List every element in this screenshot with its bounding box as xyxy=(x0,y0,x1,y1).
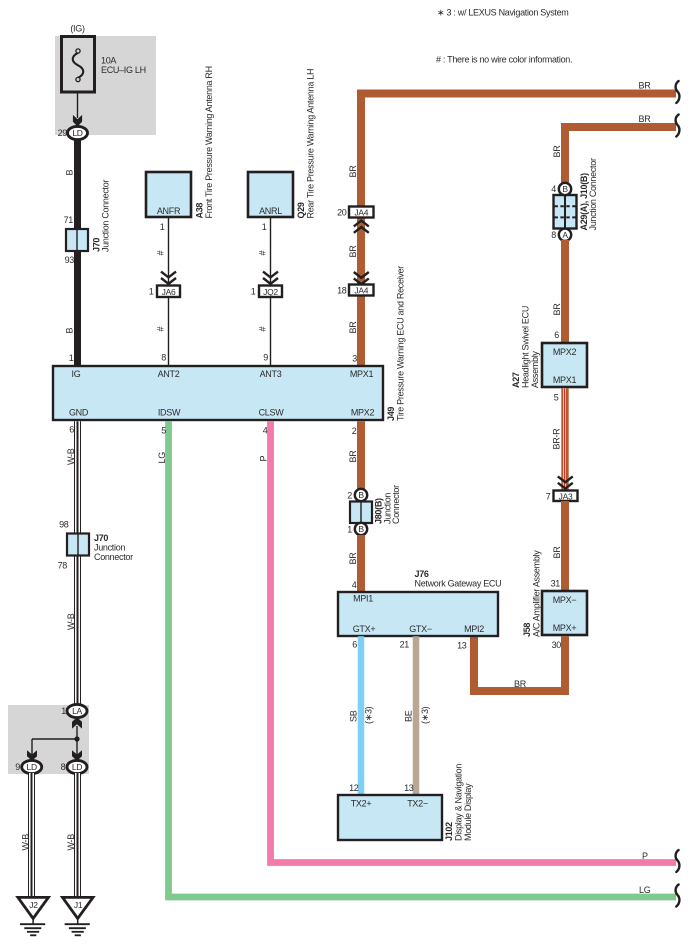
svg-text:B: B xyxy=(65,170,75,176)
wire W-B GND to ground block xyxy=(75,421,81,706)
svg-text:ANT2: ANT2 xyxy=(158,369,180,379)
svg-text:BR: BR xyxy=(514,679,527,689)
J58 A/C Amplifier Assembly xyxy=(542,591,587,635)
svg-text:18: 18 xyxy=(337,286,347,296)
svg-text:TX2−: TX2− xyxy=(407,799,428,809)
svg-text:Assembly: Assembly xyxy=(530,351,540,388)
svg-text:GTX+: GTX+ xyxy=(353,624,376,634)
svg-text:LG: LG xyxy=(639,885,651,895)
svg-text:P: P xyxy=(259,456,269,462)
svg-text:JA4: JA4 xyxy=(354,208,368,218)
connector JQ2 pin 1 xyxy=(259,286,282,298)
wire JQ2 to ANT3 xyxy=(270,297,272,366)
svg-text:MPX2: MPX2 xyxy=(351,408,375,418)
svg-text:93: 93 xyxy=(65,255,75,265)
J102 Display & Navigation Module Display xyxy=(338,795,442,840)
svg-text:ANFR: ANFR xyxy=(157,206,181,216)
svg-text:#: # xyxy=(156,327,166,332)
svg-text:#: # xyxy=(156,251,166,256)
arrow up to LA xyxy=(72,717,82,729)
connector pin 1 LA xyxy=(67,704,87,717)
svg-text:6: 6 xyxy=(69,425,74,435)
svg-text:29: 29 xyxy=(58,128,68,138)
svg-text:MPX1: MPX1 xyxy=(553,375,577,385)
connector JA3 pin 7 xyxy=(554,491,578,502)
svg-text:B: B xyxy=(358,524,364,534)
svg-text:5: 5 xyxy=(554,393,559,403)
wire BR J49 MPX2 down to J80 xyxy=(357,421,365,490)
svg-text:JA4: JA4 xyxy=(354,286,368,296)
svg-text:1: 1 xyxy=(251,287,256,297)
svg-text:5: 5 xyxy=(161,426,166,436)
svg-text:W-B: W-B xyxy=(21,834,31,851)
shaded power region (fuse block) xyxy=(55,36,156,135)
svg-text:Junction: Junction xyxy=(94,543,125,553)
svg-text:#: # xyxy=(258,251,268,256)
wire fuse to connector xyxy=(77,92,79,118)
svg-text:#: # xyxy=(258,327,268,332)
connector JA4 pin 18 xyxy=(349,285,374,296)
svg-text:JA3: JA3 xyxy=(559,491,573,501)
svg-text:LD: LD xyxy=(72,128,82,138)
pin 8 circle A xyxy=(559,229,571,241)
svg-text:IG: IG xyxy=(72,369,81,379)
junction connector J70 (upper) xyxy=(66,229,88,251)
svg-text:LA: LA xyxy=(72,706,82,716)
svg-text:MPX−: MPX− xyxy=(553,595,577,605)
svg-text:Headlight Swivel ECU: Headlight Swivel ECU xyxy=(521,306,531,388)
svg-text:W-B: W-B xyxy=(66,613,76,630)
svg-text:9: 9 xyxy=(263,353,268,363)
wire BR J58 MPX+ to J76 MPI2 xyxy=(474,636,565,691)
chevron arrow into JA3 xyxy=(558,476,573,488)
svg-text:B: B xyxy=(358,490,364,500)
svg-text:1: 1 xyxy=(262,222,267,232)
chevron arrow up out of JA4 xyxy=(354,221,369,233)
svg-text:BR: BR xyxy=(639,81,652,91)
svg-text:13: 13 xyxy=(457,641,467,651)
ground J2 xyxy=(18,897,49,935)
svg-text:BR: BR xyxy=(552,145,562,158)
wire LG IDSW to right edge xyxy=(169,421,677,897)
svg-text:Q29: Q29 xyxy=(296,202,306,218)
svg-text:ANRL: ANRL xyxy=(259,206,282,216)
svg-text:ECU–IG LH: ECU–IG LH xyxy=(101,65,146,75)
svg-text:MPI2: MPI2 xyxy=(464,624,484,634)
wire break squiggle (top BR) xyxy=(676,81,680,103)
svg-text:Front Tire Pressure Warning An: Front Tire Pressure Warning Antenna RH xyxy=(204,66,214,218)
connector pin 9 LD xyxy=(22,760,42,773)
svg-text:A: A xyxy=(562,230,568,240)
wire break squiggle (second BR) xyxy=(676,115,680,137)
svg-text:8: 8 xyxy=(551,230,556,240)
svg-text:JA6: JA6 xyxy=(162,287,176,297)
svg-text:TX2+: TX2+ xyxy=(351,799,372,809)
wire BR-R A27 to JA3 xyxy=(561,388,569,490)
svg-text:J76: J76 xyxy=(415,569,429,579)
antenna A38 ANFR (Front Tire Pressure Warning Antenna RH) xyxy=(146,172,191,217)
svg-text:Connector: Connector xyxy=(94,552,133,562)
chevron arrow into JA4 xyxy=(354,272,369,284)
svg-text:9: 9 xyxy=(15,762,20,772)
wire branch horizontal xyxy=(32,738,77,740)
junction connector A29(A), J10(B) xyxy=(554,195,577,229)
svg-text:LD: LD xyxy=(72,762,82,772)
junction connector J70 (lower) xyxy=(67,534,89,556)
svg-text:CLSW: CLSW xyxy=(259,408,285,418)
svg-text:∗ 3 : w/ LEXUS Navigation Syst: ∗ 3 : w/ LEXUS Navigation System xyxy=(437,8,569,18)
ECU J49 Tire Pressure Warning ECU and Receiver xyxy=(53,366,383,420)
svg-text:6: 6 xyxy=(352,640,357,650)
svg-text:BR: BR xyxy=(348,245,358,258)
chevron arrow into JQ2 xyxy=(263,272,278,284)
svg-text:4: 4 xyxy=(551,184,556,194)
svg-text:GND: GND xyxy=(69,408,89,418)
wire BR JA3 to J58 xyxy=(561,501,569,591)
junction connector J80(B) xyxy=(350,489,372,535)
wire SB J76 GTX+ to J102 TX2+ xyxy=(358,636,365,795)
svg-text:J58: J58 xyxy=(522,623,532,637)
svg-text:P: P xyxy=(642,851,648,861)
junction node xyxy=(74,736,79,741)
svg-text:BR: BR xyxy=(348,321,358,334)
svg-text:6: 6 xyxy=(554,330,559,340)
connector pin 8 LD xyxy=(67,760,87,773)
svg-text:J102: J102 xyxy=(444,822,454,841)
svg-text:8: 8 xyxy=(61,762,66,772)
svg-text:1: 1 xyxy=(149,287,154,297)
arrow into pin 9 LD xyxy=(27,750,37,761)
svg-text:W-B: W-B xyxy=(66,834,76,851)
svg-text:Junction Connector: Junction Connector xyxy=(101,180,111,252)
svg-text:BR: BR xyxy=(348,450,358,463)
svg-text:BR: BR xyxy=(348,165,358,178)
svg-text:J2: J2 xyxy=(29,900,38,910)
svg-text:IDSW: IDSW xyxy=(158,408,181,418)
svg-text:JQ2: JQ2 xyxy=(263,287,278,297)
svg-text:13: 13 xyxy=(404,783,414,793)
wire B (thick black) pin29 to J49 IG xyxy=(74,139,81,366)
svg-text:1: 1 xyxy=(347,525,352,535)
wire BR J80 to J76 MPI1 xyxy=(357,535,365,592)
svg-text:Tire Pressure Warning ECU and: Tire Pressure Warning ECU and Receiver xyxy=(396,266,406,421)
svg-text:BR: BR xyxy=(552,546,562,559)
svg-text:8: 8 xyxy=(161,353,166,363)
svg-text:# : There is no wire color inf: # : There is no wire color information. xyxy=(436,55,572,65)
svg-text:78: 78 xyxy=(58,561,68,571)
svg-text:2: 2 xyxy=(352,426,357,436)
svg-text:Display & Navigation: Display & Navigation xyxy=(454,764,464,841)
svg-text:B: B xyxy=(65,328,75,334)
connector pin 29 LD xyxy=(68,126,88,139)
svg-text:MPX1: MPX1 xyxy=(350,369,374,379)
shaded ground region xyxy=(8,705,89,774)
svg-text:1: 1 xyxy=(69,353,74,363)
svg-text:Network Gateway ECU: Network Gateway ECU xyxy=(415,579,502,589)
chevron arrow into JA6 xyxy=(161,272,176,284)
svg-text:20: 20 xyxy=(337,208,347,218)
wire branch right down xyxy=(76,739,78,755)
svg-text:Connector: Connector xyxy=(391,485,401,524)
pin 4 circle B xyxy=(559,183,571,195)
svg-text:Rear Tire Pressure Warning Ant: Rear Tire Pressure Warning Antenna LH xyxy=(306,69,316,219)
svg-text:LG: LG xyxy=(157,452,167,464)
wire JA6 to ANT2 xyxy=(168,297,170,366)
connector JA6 pin 1 xyxy=(157,286,180,298)
svg-text:2: 2 xyxy=(347,491,352,501)
svg-text:BR: BR xyxy=(639,114,652,124)
svg-text:(∗3): (∗3) xyxy=(364,706,374,724)
svg-text:71: 71 xyxy=(64,215,74,225)
svg-text:J49: J49 xyxy=(386,407,396,421)
svg-text:BR-R: BR-R xyxy=(552,428,562,450)
arrow into pin 8 LD xyxy=(72,750,82,761)
svg-text:30: 30 xyxy=(552,640,562,650)
svg-text:J1: J1 xyxy=(74,900,83,910)
arrow into pin 29 xyxy=(73,115,82,127)
svg-text:Junction Connector: Junction Connector xyxy=(588,158,598,230)
svg-text:(IG): (IG) xyxy=(70,24,85,34)
svg-text:4: 4 xyxy=(352,580,357,590)
svg-text:W-B: W-B xyxy=(66,448,76,465)
svg-text:3: 3 xyxy=(352,354,357,364)
svg-text:98: 98 xyxy=(59,520,69,530)
wire P CLSW to right edge xyxy=(271,421,677,862)
svg-text:31: 31 xyxy=(551,579,561,589)
svg-text:BR: BR xyxy=(552,303,562,316)
svg-text:A/C Amplifier Assembly: A/C Amplifier Assembly xyxy=(532,550,542,637)
wire BR A29 to A27 xyxy=(561,240,569,343)
svg-text:BE: BE xyxy=(404,710,414,722)
svg-text:J70: J70 xyxy=(94,533,108,543)
svg-text:12: 12 xyxy=(349,783,359,793)
svg-text:1: 1 xyxy=(160,222,165,232)
svg-text:ANT3: ANT3 xyxy=(260,369,282,379)
connector JA4 pin 20 xyxy=(349,207,374,218)
svg-text:SB: SB xyxy=(349,710,359,722)
svg-text:Module Display: Module Display xyxy=(463,783,473,841)
wire branch left down xyxy=(31,739,33,755)
wire W-B pin8 to ground J1 xyxy=(75,773,81,897)
svg-text:4: 4 xyxy=(263,426,268,436)
ground J1 xyxy=(63,897,94,935)
svg-text:MPI1: MPI1 xyxy=(353,594,373,604)
wire ANRL to JQ2 xyxy=(270,218,272,286)
wire BR horizontal (second) down to A29 junction xyxy=(565,127,676,184)
svg-text:MPX2: MPX2 xyxy=(553,347,577,357)
wire break squiggle (P) xyxy=(676,850,680,872)
svg-text:A38: A38 xyxy=(195,203,205,219)
svg-text:7: 7 xyxy=(546,491,551,501)
A27 Headlight Swivel ECU Assembly xyxy=(542,343,587,387)
svg-text:21: 21 xyxy=(400,640,410,650)
wire W-B pin9 to ground J2 xyxy=(29,773,35,897)
svg-text:MPX+: MPX+ xyxy=(553,623,577,633)
svg-text:(∗3): (∗3) xyxy=(420,706,430,724)
wire BE J76 GTX- to J102 TX2- xyxy=(413,636,420,795)
svg-text:B: B xyxy=(562,184,568,194)
svg-text:GTX−: GTX− xyxy=(409,624,432,634)
wire BR horizontal (top) to MPX1 column xyxy=(361,94,676,367)
svg-text:LD: LD xyxy=(27,762,37,772)
wire ANFR to JA6 xyxy=(168,218,170,286)
svg-text:10A: 10A xyxy=(101,56,116,66)
svg-text:BR: BR xyxy=(348,552,358,565)
svg-text:1: 1 xyxy=(61,706,66,716)
fuse ECU-IG LH 10A xyxy=(62,37,95,93)
svg-text:A27: A27 xyxy=(511,372,521,388)
wire break squiggle (LG) xyxy=(676,885,680,907)
antenna Q29 ANRL (Rear Tire Pressure Warning Antenna LH) xyxy=(248,172,293,217)
